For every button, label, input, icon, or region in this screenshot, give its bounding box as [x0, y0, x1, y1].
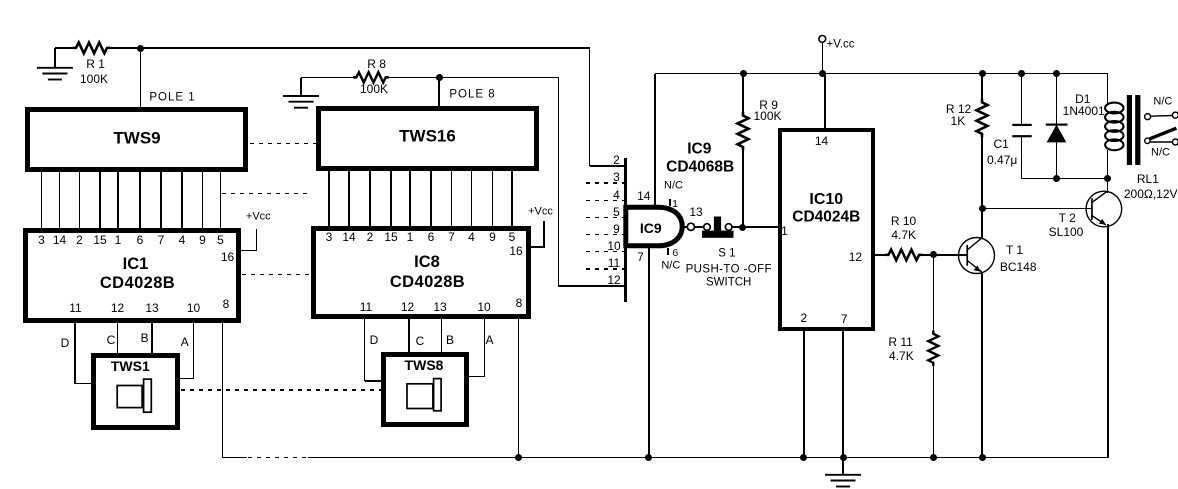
node D1 bottom: [1053, 175, 1060, 182]
wire relay to T2 collector: [1107, 178, 1109, 193]
wire relay coil bottom: [1107, 150, 1109, 180]
node R1/POLE1 junction: [137, 45, 144, 52]
label TWS16 title: [399, 127, 456, 144]
wire IC8 D horizontal to TWS8: [365, 380, 382, 382]
label TWS1 title: [111, 359, 150, 373]
label R11 value: [889, 350, 914, 362]
ground G2 stem: [300, 78, 302, 97]
IC8 top pin number 2: [367, 231, 374, 243]
wire POLE1 vertical: [140, 48, 142, 108]
IC8 bottom pin number 10: [477, 301, 490, 313]
wire TWS16 pole contact 6 to IC8: [430, 171, 432, 228]
IC1 top pin number 1: [115, 234, 122, 246]
wire IC1 pin16 +Vcc horizontal: [241, 250, 257, 252]
thumbwheel switch TWS16: [316, 106, 539, 171]
label +Vcc at IC1: [246, 212, 271, 223]
IC10 pin 2 number: [801, 312, 808, 324]
IC1 top pin number 7: [158, 234, 165, 246]
label S1 designator: [718, 249, 735, 261]
wire IC1 pin8 vertical to ground bus: [222, 322, 224, 458]
label T2 designator: [1059, 212, 1076, 224]
wire TWS9 pole contact 7 to IC1: [160, 171, 162, 229]
thumbwheel switch TWS9: [25, 107, 248, 172]
resistor R10 4.7K: [885, 250, 923, 261]
wire D1 bottom: [1056, 142, 1058, 179]
node ground bus IC10 pin2: [800, 454, 807, 461]
wire R9 top: [742, 74, 744, 113]
IC9 input pin number 2: [613, 154, 620, 166]
label R9 value: [753, 110, 781, 122]
wire R9 bottom to S1 node: [742, 150, 744, 228]
wire POLE8 vertical: [438, 78, 440, 107]
wire TWS9 pole contact 3 to IC1: [79, 171, 81, 229]
wire IC1 pin12 (C) vertical: [117, 322, 119, 354]
IC9 input pin number 3: [613, 171, 620, 183]
IC8 bottom pin number 12: [401, 301, 414, 313]
wire R1 ground to resistor: [55, 47, 74, 49]
IC10 pin 14 number: [815, 135, 828, 147]
label POLE 8: [449, 89, 495, 101]
dashed continuation pole wires row: [222, 193, 312, 195]
label IC10 part number: [792, 209, 860, 225]
node ground bus T1 emitter: [979, 454, 986, 461]
label IC1 part number: [100, 275, 175, 292]
relay contact moving arm: [1145, 128, 1176, 141]
resistor R9 100K: [738, 112, 749, 151]
TWS1 switch icon: [117, 379, 151, 412]
IC1 top pin number 9: [199, 234, 206, 246]
resistor R1 100K: [73, 42, 111, 53]
IC1 top pin number 3: [38, 234, 45, 246]
node ground bus IC9 pin7: [645, 454, 652, 461]
IC9 pin 6 number: [672, 248, 678, 259]
label POLE 1: [149, 92, 195, 104]
label N/C relay top: [1153, 97, 1172, 108]
IC8 bottom pin number 11: [360, 301, 372, 313]
IC8 output A label: [485, 334, 493, 346]
wire D1 top: [1056, 74, 1058, 125]
ground G3 stem: [842, 458, 844, 476]
wire TWS16 pole contact 5 to IC8: [409, 171, 411, 228]
IC1 bottom pin number 10: [187, 302, 200, 314]
wire IC10 pin2 to ground bus: [803, 330, 805, 458]
IC1 output D label: [61, 337, 70, 349]
dashed continuation IC1 to IC8: [242, 274, 311, 276]
wire IC1 pin13 (B) vertical: [151, 322, 153, 354]
wire T1 emitter to ground bus: [981, 272, 983, 459]
IC1 output A label: [181, 336, 189, 348]
wire IC10 pin12 to R10: [874, 254, 886, 256]
switch S1 right contact circle: [725, 224, 732, 231]
label C1 designator: [994, 138, 1009, 150]
relay contact bottom N/C line: [1150, 141, 1173, 143]
IC1 bottom pin number 12: [111, 302, 124, 314]
thumbwheel switch TWS8: [381, 352, 469, 427]
relay RL1 coil: [1105, 103, 1123, 151]
IC8 top pin number 5: [509, 231, 516, 243]
wire TWS16 pole contact 2 to IC8: [348, 171, 350, 228]
wire IC1 pin11 (D) vertical: [74, 322, 76, 384]
IC8 output C label: [416, 335, 425, 347]
wire +Vcc rail to IC9 pin14: [654, 74, 656, 207]
wire TWS16 pole contact 3 to IC8: [369, 171, 371, 228]
wire ground bus main segment: [308, 457, 1109, 459]
wire T2 emitter to ground bus: [1107, 224, 1109, 458]
wire IC9 pin6 tick (N/C): [667, 248, 669, 255]
IC1 top pin number 15: [93, 234, 106, 246]
node S1/R9/IC10 pin1: [739, 224, 746, 231]
wire IC8 pin16 +Vcc vertical: [543, 221, 545, 248]
IC1 pin 8 number: [223, 298, 230, 310]
IC1 output C label: [107, 334, 116, 346]
wire IC10 pin14 from rail: [824, 74, 826, 129]
IC1 top pin number 2: [76, 234, 83, 246]
ground symbol G2 (R8): [283, 96, 319, 108]
wire TWS16 pole contact 10 to IC8: [511, 171, 513, 228]
dashed stub IC9 input pin 4: [586, 200, 625, 202]
wire IC1 A horizontal to TWS1: [180, 378, 194, 380]
wire R1 net vertical drop to pin2 line: [589, 48, 591, 166]
relay contact top N/C line: [1151, 115, 1173, 118]
IC9 input pin number 4: [613, 189, 620, 201]
wire IC10 pin7 to ground bus: [842, 330, 844, 458]
wire IC8 pin11 (D) vertical: [364, 319, 366, 382]
resistor R11 4.7K: [928, 331, 938, 367]
IC9 pin 14 number: [637, 190, 650, 202]
IC1 bottom pin number 11: [69, 302, 81, 314]
resistor R8 100K: [353, 72, 389, 82]
label IC10 designator: [809, 192, 843, 208]
dashed stub IC9 input pin 10: [586, 251, 625, 253]
wire TWS16 pole contact 8 to IC8: [471, 171, 473, 228]
IC9 input pin number 9: [613, 223, 620, 235]
wire TWS9 pole contact 9 to IC1: [202, 171, 204, 229]
wire T2 base horizontal: [982, 208, 1093, 210]
node relay/T2 collector: [1104, 175, 1111, 182]
node ground bus IC8 pin8: [515, 454, 522, 461]
switch S1 left contact circle: [704, 224, 711, 231]
dashed stub IC9 input pin 5: [586, 217, 625, 219]
wire TWS16 pole contact 9 to IC8: [492, 171, 494, 228]
IC1 top pin number 14: [53, 234, 66, 246]
label T1 designator: [1006, 244, 1023, 256]
wire R8 ground to resistor: [301, 77, 354, 79]
IC9 input pin number 12: [607, 274, 620, 286]
IC10 CD4024B body: [778, 128, 875, 331]
wire R10 node down to R11: [933, 255, 935, 331]
IC1 output B label: [141, 332, 149, 344]
wire S1 to IC10 pin1: [732, 226, 779, 228]
wire +Vcc rail horizontal: [655, 73, 1109, 75]
wire IC1 pin16 +Vcc vertical: [256, 229, 258, 251]
dashed stub IC9 input pin 11: [586, 268, 625, 270]
label IC9 inside gate: [640, 221, 662, 235]
IC8 top pin number 3: [326, 231, 333, 243]
label N/C top (IC9 pin1): [664, 181, 683, 192]
diode D1 1N4001: [1046, 124, 1068, 143]
ground symbol G1 (R1): [37, 68, 73, 80]
label R11 designator: [888, 336, 912, 348]
IC8 top pin number 4: [468, 231, 475, 243]
wire TWS16 pole contact 1 to IC8: [328, 171, 330, 228]
thumbwheel switch TWS1: [91, 353, 180, 429]
label IC1 designator: [123, 255, 149, 272]
IC1 bottom pin number 13: [145, 302, 158, 314]
label IC9 part number: [666, 159, 734, 175]
label S1 switch: [706, 277, 751, 289]
node rail D1 tap: [1053, 70, 1060, 77]
IC8 output D label: [370, 334, 379, 346]
label +V.cc terminal: [826, 39, 854, 51]
wire ground bus dashed segment: [248, 457, 308, 459]
IC1 top pin number 5: [217, 234, 224, 246]
dashed continuation TWS1 to TWS8: [181, 389, 381, 391]
relay contact bottom right terminal: [1172, 139, 1178, 145]
wire IC8 pin16 +Vcc horizontal: [531, 246, 545, 248]
IC9 pin 1 number: [672, 198, 678, 209]
IC8 output B label: [446, 334, 454, 346]
ground G1 stem: [54, 48, 56, 68]
wire IC9 pin7 to ground bus: [648, 248, 650, 458]
label TWS9 title: [113, 129, 160, 146]
relay contact top right terminal: [1172, 112, 1178, 118]
transistor T2 SL100: [1086, 191, 1122, 227]
label IC8 designator: [414, 254, 440, 271]
label RL1 designator: [1137, 173, 1159, 185]
wire TWS9 pole contact 10 to IC1: [220, 171, 222, 229]
wire R8 to corner (net POLE8/IC9 pin12): [389, 77, 560, 79]
wire IC8 pin12 (C) vertical: [408, 319, 410, 354]
label R1 designator: [86, 58, 105, 70]
wire IC9 output to S1: [684, 226, 705, 228]
label R10 value: [891, 229, 916, 241]
wire R12 top from rail: [981, 74, 983, 100]
node R10/R11/T1 base: [930, 251, 937, 258]
IC9 output bubble pin 13: [687, 223, 694, 230]
wire IC9 pin1 tick (N/C): [669, 199, 671, 207]
dashed stub IC9 input pin 9: [586, 234, 625, 236]
wire IC9 pin2 input line: [590, 165, 626, 167]
IC8 pin 16 number: [509, 245, 522, 257]
wire +Vcc terminal stem: [822, 42, 824, 74]
ground symbol G3 (main): [825, 475, 861, 487]
label R1 value: [80, 73, 108, 85]
IC8 top pin number 1: [407, 231, 414, 243]
IC8 pin 8 number: [516, 297, 523, 309]
wire IC1 D horizontal to TWS1: [75, 383, 91, 385]
IC9 input pin number 10: [607, 240, 620, 252]
label R12 value: [951, 115, 966, 127]
wire relay coil top: [1107, 74, 1109, 105]
wire R10 to T1 base: [922, 254, 968, 256]
IC10 pin 7 number: [841, 313, 848, 325]
label D1 part number: [1063, 105, 1105, 117]
label N/C relay bottom: [1151, 148, 1170, 159]
node ground bus IC10 pin7/ground: [840, 454, 847, 461]
TWS8 switch icon: [407, 379, 441, 411]
relay contact pivot circle: [1145, 114, 1151, 120]
IC9 input pin number 5: [613, 206, 620, 218]
node rail R9 tap: [740, 70, 747, 77]
wire TWS16 pole contact 7 to IC8: [451, 171, 453, 228]
wire R12/T1 collector vertical: [981, 137, 983, 239]
label D1 designator: [1075, 93, 1090, 105]
label +Vcc at IC8: [528, 207, 553, 218]
dashed stub IC9 input pin 3: [586, 182, 625, 184]
label IC8 part number: [390, 274, 465, 291]
label C1 value: [987, 154, 1017, 166]
wire IC9 pin12 input line: [559, 285, 626, 287]
IC1 top pin number 6: [137, 234, 144, 246]
wire R11 to ground bus: [933, 366, 935, 459]
dashed continuation TWS9 to TWS16: [250, 143, 316, 145]
IC8 bottom pin number 13: [433, 301, 446, 313]
label TWS8 title: [405, 358, 444, 372]
label R9 designator: [759, 99, 778, 111]
label N/C bottom (IC9 pin6): [661, 261, 680, 272]
wire C1 top: [1021, 74, 1023, 125]
wire ground bus left segment: [222, 457, 248, 459]
IC1 CD4028B body: [23, 228, 241, 323]
node rail +Vcc terminal: [819, 70, 826, 77]
wire IC8 pin13 (B) vertical: [441, 319, 443, 354]
wire TWS9 pole contact 2 to IC1: [59, 171, 61, 229]
wire TWS9 pole contact 6 to IC1: [139, 171, 141, 229]
wire IC8 pin10 (A) vertical: [484, 319, 486, 378]
wire IC8 A horizontal to TWS8: [469, 376, 485, 378]
capacitor C1 0.47u plates: [1012, 124, 1031, 138]
label R12 designator: [946, 103, 971, 115]
label S1 push-to-off: [686, 264, 772, 276]
IC8 top pin number 9: [489, 231, 496, 243]
wire IC8 pin8 vertical to ground bus: [518, 319, 520, 458]
wire TWS9 pole contact 5 to IC1: [117, 171, 119, 229]
IC8 CD4028B body: [311, 226, 532, 319]
IC8 top pin number 7: [448, 231, 455, 243]
IC8 top pin number 6: [428, 231, 435, 243]
node rail R12 tap: [979, 70, 986, 77]
wire C1 bottom: [1021, 137, 1023, 179]
wire TWS9 pole contact 1 to IC1: [41, 171, 43, 229]
wire TWS9 pole contact 8 to IC1: [181, 171, 183, 229]
IC1 pin 16 number: [221, 251, 234, 263]
wire R8 net vertical drop to pin12 line: [558, 78, 560, 287]
label R10 designator: [891, 215, 916, 227]
label IC9 designator: [687, 142, 711, 158]
IC10 pin 1 number: [781, 225, 788, 237]
IC8 top pin number 14: [342, 231, 355, 243]
wire IC1 pin10 (A) vertical: [193, 322, 195, 379]
node rail C1 tap: [1018, 70, 1025, 77]
IC9 input bus bar: [624, 158, 627, 302]
+Vcc terminal circle: [819, 36, 826, 43]
node T1 collector/T2 base: [979, 205, 986, 212]
node R8/POLE8 junction: [436, 74, 443, 81]
IC10 pin 12 number: [849, 251, 862, 263]
wire C1/D1/relay bottom horizontal: [1021, 178, 1108, 180]
label R8 value: [360, 83, 388, 95]
IC9 pin 13 number: [689, 206, 702, 218]
label RL1 value: [1124, 188, 1178, 200]
relay contact arm base circle: [1145, 138, 1150, 143]
op-amp/gate IC9 CD4068B NAND body: [626, 207, 682, 246]
label R8 designator: [367, 58, 386, 70]
label T1 part number: [1000, 261, 1037, 273]
IC1 top pin number 4: [179, 234, 186, 246]
label T2 part number: [1049, 226, 1084, 238]
node ground bus R11: [930, 454, 937, 461]
IC9 input pin number 11: [608, 257, 620, 269]
IC8 top pin number 15: [384, 231, 397, 243]
resistor R12 1K: [977, 99, 988, 138]
transistor T1 BC148: [959, 238, 995, 274]
wire R1 to corner (net POLE1/IC9 pin2): [110, 47, 591, 49]
relay RL1 core bars: [1127, 95, 1141, 165]
switch S1 push-to-off plunger: [702, 217, 734, 238]
wire TWS16 pole contact 4 to IC8: [390, 171, 392, 228]
wire TWS9 pole contact 4 to IC1: [99, 171, 101, 229]
IC9 pin 7 number: [637, 251, 644, 263]
